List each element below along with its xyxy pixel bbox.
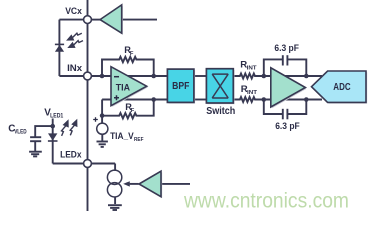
svg-text:www.cntronics.com: www.cntronics.com xyxy=(183,190,349,213)
svg-text:BPF: BPF xyxy=(172,81,189,92)
svg-text:6.3 pF: 6.3 pF xyxy=(275,121,300,131)
svg-text:LEDx: LEDx xyxy=(60,150,82,161)
svg-text:TIA: TIA xyxy=(116,82,130,93)
svg-text:LED1: LED1 xyxy=(50,114,64,120)
svg-text:INT: INT xyxy=(247,90,257,96)
svg-text:TIA_V: TIA_V xyxy=(110,131,134,142)
svg-text:F: F xyxy=(130,51,134,57)
svg-text:Switch: Switch xyxy=(206,106,235,117)
svg-text:F: F xyxy=(131,108,135,114)
svg-text:VCx: VCx xyxy=(65,6,82,17)
svg-text:ADC: ADC xyxy=(333,82,351,93)
svg-text:INx: INx xyxy=(67,63,83,74)
svg-text:REF: REF xyxy=(134,137,144,143)
svg-text:6.3 pF: 6.3 pF xyxy=(274,43,299,53)
svg-text:VLED: VLED xyxy=(14,129,27,135)
svg-text:INT: INT xyxy=(247,65,257,71)
